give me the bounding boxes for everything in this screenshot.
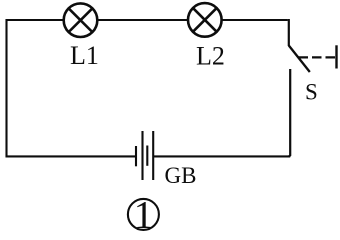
battery GB plate 1 (short) xyxy=(135,146,137,166)
wire between lamps xyxy=(97,19,188,21)
svg-text:S: S xyxy=(305,79,318,104)
battery GB plate 3 (short) xyxy=(146,146,148,166)
wire top right segment xyxy=(222,19,288,21)
wire top left segment xyxy=(7,19,65,21)
wire right lower (switch down to corner) xyxy=(289,69,290,156)
wire right upper (corner down to switch) xyxy=(288,19,290,46)
battery GB plate 2 (long) xyxy=(141,131,143,180)
svg-text:L1: L1 xyxy=(70,41,99,70)
svg-text:1: 1 xyxy=(134,194,154,233)
switch S handle dashed link xyxy=(299,56,336,58)
figure number circle xyxy=(128,199,159,230)
wire left segment xyxy=(5,19,7,157)
lamp L2 xyxy=(188,3,222,37)
svg-text:L2: L2 xyxy=(196,42,225,71)
wire bottom left segment xyxy=(6,155,137,157)
svg-text:GB: GB xyxy=(165,163,197,188)
switch S handle bar xyxy=(335,45,337,68)
switch S blade xyxy=(289,46,310,73)
battery GB plate 4 (long) xyxy=(152,131,154,180)
lamp L1 xyxy=(64,3,98,37)
wire bottom right segment xyxy=(153,155,290,157)
